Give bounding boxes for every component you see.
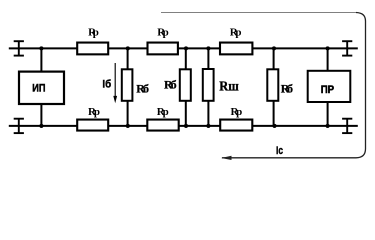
svg-text:Rш: Rш [219, 79, 239, 94]
svg-text:Rб: Rб [136, 81, 149, 95]
svg-text:Rб: Rб [281, 81, 293, 95]
svg-text:Rp: Rp [230, 26, 242, 38]
svg-text:Rp: Rp [88, 106, 100, 118]
svg-text:Ic: Ic [276, 145, 283, 157]
svg-text:Rp: Rp [157, 26, 168, 38]
svg-text:Rp: Rp [231, 106, 243, 118]
svg-text:ИП: ИП [32, 82, 45, 94]
svg-text:Rp: Rp [88, 26, 99, 38]
svg-text:Rp: Rp [157, 106, 169, 118]
svg-text:Rб: Rб [164, 78, 177, 92]
svg-text:ПР: ПР [321, 84, 334, 96]
svg-text:Iб: Iб [102, 78, 111, 90]
